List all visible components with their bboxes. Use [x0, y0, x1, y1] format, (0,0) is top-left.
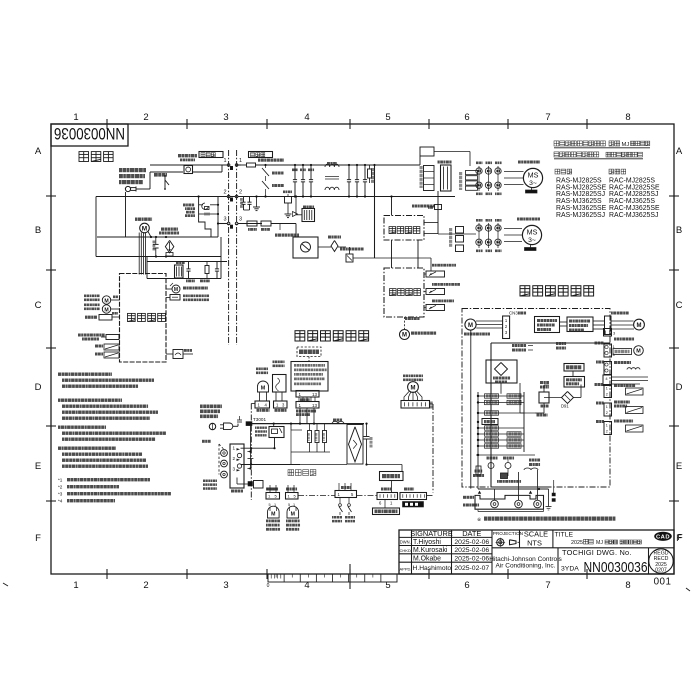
svg-text:3: 3 [233, 467, 236, 472]
rail3 series R004 C004 [247, 221, 257, 226]
right connector column CN15 [595, 342, 604, 345]
svg-text:D91: D91 [561, 404, 569, 409]
reactor L [438, 161, 452, 164]
fan motor lead wires [138, 233, 140, 275]
main bus indoor pcb [252, 423, 364, 425]
right connector CN8 OH thermistor [596, 420, 604, 423]
power module input stack [424, 166, 435, 191]
svg-text:2: 2 [143, 580, 148, 591]
humidity sensor label [273, 361, 285, 368]
indoor fan motor label wiring [403, 375, 423, 382]
row boundary ticks [46, 195, 56, 197]
svg-text:1: 1 [606, 387, 608, 391]
svg-text:SCALE: SCALE [524, 529, 548, 538]
outdoor fan motor wiring M [634, 319, 645, 330]
wire plug drop to loop [125, 192, 127, 237]
inductor LN01 [303, 206, 314, 209]
connector CN7 [381, 488, 391, 491]
varistor AV02 [272, 184, 284, 187]
ground 2 [287, 203, 289, 214]
svg-text:F: F [35, 533, 41, 544]
resistor R01 [369, 165, 371, 169]
wires CN15 to bus [299, 408, 301, 424]
svg-text:B: B [676, 225, 682, 236]
indoor wiring diagram heading [295, 331, 369, 341]
svg-text:5: 5 [269, 503, 271, 507]
relay RL12 [340, 248, 364, 251]
power block to fan inverter wires [424, 222, 438, 224]
svg-text:RAS-MJ3625SJ: RAS-MJ3625SJ [556, 212, 605, 219]
header line 1: Hitachi room air conditioner MJ series [554, 141, 605, 146]
notes bullet 3 H-LINK [58, 426, 106, 429]
control circuit block (kairo) [120, 274, 167, 363]
capacitor C003 indoor [366, 424, 368, 437]
compressor inverter IGBT column wires [478, 166, 480, 191]
svg-text:4: 4 [304, 112, 309, 123]
connector row chain link [298, 495, 335, 497]
power plug label 100V 50/60Hz [119, 168, 146, 172]
terminal block label [231, 490, 243, 493]
capacitor C61 [216, 262, 218, 269]
projection symbol [497, 539, 504, 546]
indoor fan motor M [140, 223, 150, 233]
svg-text:13: 13 [312, 392, 318, 397]
terminal junction 1 [227, 164, 230, 167]
connector CN10 [274, 401, 288, 408]
connector CN2 indoor [401, 401, 430, 409]
svg-text:1: 1 [73, 112, 78, 123]
wire rail 1 indoor [150, 164, 229, 166]
svg-text:MS: MS [527, 228, 538, 237]
wire plug to rails [136, 188, 150, 190]
wires above CN4 [338, 483, 340, 491]
svg-text:*2: *2 [58, 485, 63, 490]
model table heading outdoor [609, 169, 626, 174]
cable markers right [552, 493, 555, 496]
svg-text:2: 2 [233, 456, 236, 461]
surge unit labels R002 C007 [183, 204, 194, 207]
notes bullet 4 drain up kit [58, 447, 116, 450]
svg-text:6: 6 [464, 580, 469, 591]
OH thermostat row [432, 300, 454, 303]
svg-text:M: M [468, 323, 473, 329]
power plug label wiring [200, 405, 222, 409]
corner mark right [686, 588, 690, 591]
noise filter NF1 outdoor [482, 419, 498, 425]
cleaning unit motor row [166, 288, 172, 290]
outdoor pcb internal wires [500, 383, 502, 394]
resistor stack labels [309, 424, 311, 431]
CAD stamp [654, 532, 672, 541]
compressor motor terminal bar [531, 188, 533, 190]
model table heading indoor [555, 169, 572, 174]
thermal fuse label 132C [78, 334, 105, 337]
svg-text:1: 1 [606, 405, 608, 409]
svg-text:M: M [104, 298, 108, 304]
connector CN16 [296, 391, 319, 398]
compressor motor label [518, 161, 540, 164]
svg-text:2: 2 [606, 411, 608, 415]
thermistor row 1 [95, 345, 103, 348]
dashed route CN2 to CN6 [432, 404, 434, 493]
fan inverter pcb box [567, 317, 593, 332]
column boundary ticks [106, 119, 108, 129]
relay RL2 [539, 392, 549, 403]
overload relay row [432, 264, 456, 267]
fan inverter cap stack [456, 227, 464, 234]
defrost thermostat row [432, 283, 460, 286]
svg-text:2025-02-06: 2025-02-06 [454, 556, 489, 563]
svg-text:B: B [35, 225, 41, 236]
fuse AF1 [258, 159, 284, 162]
small box L002 [285, 197, 292, 204]
svg-text:M: M [402, 333, 407, 339]
terminal arrows [478, 491, 481, 494]
svg-text:D: D [35, 382, 42, 393]
vane motor 2 dome [287, 506, 299, 518]
svg-text:M: M [291, 512, 295, 518]
display pcb row [99, 315, 112, 321]
wire rail1 to inverter module [375, 164, 421, 166]
notes bullet 2 code key controller [58, 399, 122, 402]
expansion valve motor wire dashed [404, 317, 406, 329]
outdoor connection line label [203, 480, 217, 490]
svg-text:2025-02-06: 2025-02-06 [454, 539, 489, 546]
louver motor row 1 label [84, 295, 100, 302]
plug wire to bus [233, 425, 238, 427]
indoor fan motor label [135, 218, 152, 221]
main outdoor pcb outline [491, 343, 548, 487]
vane motor 1 dome [268, 506, 280, 518]
wires power pcb [391, 481, 393, 493]
header line 2: indoor/outdoor unit circuit+wiring diagram [554, 152, 599, 157]
svg-text:M: M [636, 349, 641, 355]
svg-text:M: M [142, 225, 147, 232]
louver motor row 2 symbol [102, 305, 110, 313]
svg-text:0207: 0207 [655, 568, 667, 574]
outdoor side label box [249, 152, 273, 158]
filter capacitors C1-C3 [294, 165, 296, 180]
svg-text:PROJECTION: PROJECTION [493, 531, 523, 536]
ground [256, 197, 258, 208]
indoor/outdoor boundary chain lines [228, 150, 230, 345]
sheet border frame [51, 124, 674, 574]
power plug symbol wiring [209, 423, 215, 429]
title block outline [399, 530, 674, 574]
svg-text:2: 2 [223, 190, 226, 196]
svg-text:2: 2 [239, 190, 242, 196]
connector CN8 indoor [255, 401, 270, 408]
svg-text:Air Conditioning, Inc.: Air Conditioning, Inc. [496, 563, 556, 570]
compressor leads [476, 320, 503, 322]
svg-text:3: 3 [223, 580, 228, 591]
connector CN15 [296, 402, 319, 409]
power circuit block label box [384, 216, 424, 241]
resistor R60 [206, 262, 208, 266]
connector CN4 [341, 486, 351, 489]
outdoor terminal strip 4pin [603, 375, 612, 386]
bridge diode D001 indoor [347, 425, 363, 465]
terminal wires to pcb [241, 447, 275, 449]
varistor resistor column 1 [290, 424, 292, 430]
control circuit block label box outdoor [384, 268, 424, 317]
svg-text:M: M [637, 323, 642, 329]
svg-text:2025: 2025 [571, 540, 583, 546]
wire quick charge to relay connector [375, 257, 432, 259]
inverter dc link box [420, 147, 434, 156]
compressor motor wiring label [464, 333, 490, 336]
indoor side label box [199, 152, 223, 158]
bus jumper cap [237, 419, 242, 421]
svg-text:M: M [174, 287, 178, 293]
terminal junction 3 [227, 222, 230, 225]
fuse AF4 label [412, 205, 435, 208]
capacitor C60 [188, 262, 190, 269]
left rail junction dots [477, 395, 479, 397]
outdoor terminal board [475, 495, 544, 509]
svg-text:2025-02-06: 2025-02-06 [454, 547, 489, 554]
svg-text:3: 3 [239, 217, 242, 223]
svg-text:2: 2 [606, 430, 608, 434]
connector CN9 [286, 488, 297, 491]
svg-text:2: 2 [143, 112, 148, 123]
power pcb box indoor [380, 472, 404, 481]
wireless remote dashed box [297, 347, 321, 357]
svg-text:DATE: DATE [462, 529, 481, 538]
terminal block TB [230, 444, 244, 488]
svg-text:A: A [676, 146, 683, 157]
svg-text:NN0030036: NN0030036 [584, 560, 648, 576]
expansion valve motor M [400, 330, 410, 340]
svg-text:8: 8 [625, 112, 630, 123]
left feed lines outdoor diagram [470, 330, 472, 489]
outdoor fan motor wiring label [611, 312, 629, 315]
svg-text:T.Hiyoshi: T.Hiyoshi [413, 539, 441, 546]
outdoor top connector [604, 329, 612, 337]
connector CN6 [404, 488, 414, 491]
svg-text:SIGNATURE: SIGNATURE [410, 529, 453, 538]
terminal junction 2 [227, 195, 230, 198]
svg-text:TITLE: TITLE [555, 531, 574, 538]
power relay RL001 [255, 427, 267, 437]
svg-text:C: C [35, 300, 42, 311]
svg-text:MJ: MJ [622, 142, 630, 148]
filter capacitors C4-C5 [348, 165, 350, 180]
capacitor C01 label [161, 228, 178, 231]
capacitors C021 C022 [512, 344, 526, 347]
fan inverter IGBTs [476, 225, 482, 231]
svg-text:5: 5 [288, 503, 290, 507]
wire rail2 into power block [391, 197, 393, 216]
svg-text:0: 0 [267, 583, 270, 589]
control pcb label [288, 470, 316, 476]
svg-text:*1: *1 [58, 478, 63, 483]
sheet title kanji: circuit diagram [79, 152, 113, 162]
svg-text:1: 1 [606, 424, 608, 428]
wire rail1 drop to power board [374, 165, 376, 258]
noise filter NF1 [333, 419, 342, 422]
varistors VS1 VS2 [487, 457, 498, 460]
received stamp [649, 549, 673, 573]
pcb boundary chain line indoor [250, 404, 252, 501]
svg-text:MS: MS [528, 171, 539, 180]
svg-text:D: D [676, 382, 683, 393]
current sense stack [466, 171, 478, 175]
svg-text:M: M [271, 512, 275, 518]
outdoor fan motor MS [522, 225, 541, 244]
svg-text:*4: *4 [58, 499, 63, 504]
indoor fan motor M wiring [408, 382, 419, 393]
compressor motor wiring M [465, 319, 476, 330]
svg-text:M: M [261, 386, 266, 392]
svg-text:1: 1 [223, 158, 226, 164]
cleaning unit switch row [166, 297, 170, 299]
T3001 junction [246, 422, 252, 426]
wiring module box [373, 508, 400, 515]
svg-text:F: F [678, 532, 683, 542]
right connector CN? defrost thermistor [596, 402, 604, 405]
svg-text:MJ: MJ [596, 540, 603, 546]
svg-text:TOCHIGI DWG. No.: TOCHIGI DWG. No. [562, 548, 632, 557]
svg-text:7: 7 [545, 112, 550, 123]
svg-text:CHKD.: CHKD. [400, 548, 412, 553]
svg-text:6: 6 [464, 112, 469, 123]
svg-text:2025-02-07: 2025-02-07 [454, 565, 489, 572]
control block bottom-right lamp [166, 353, 173, 355]
earth wire dashed [218, 444, 220, 475]
svg-text:1: 1 [233, 446, 236, 451]
humidity sensor box [273, 375, 287, 393]
transformer rail bottom [147, 278, 221, 280]
wire rail 1 outdoor [237, 164, 241, 166]
cleaning motor dome [258, 381, 269, 392]
power plug symbol [125, 186, 130, 191]
notes bullet 1 home automation [58, 373, 112, 376]
caps at rail2 left [243, 197, 245, 203]
wires above CN9 [269, 485, 271, 493]
svg-text:3YDA: 3YDA [561, 566, 579, 573]
quick charge circuit label [275, 234, 299, 237]
compressor inverter IGBTs [476, 168, 482, 174]
component labels under transformer [186, 280, 195, 283]
relay AUX1 [178, 154, 197, 157]
svg-text:M: M [104, 307, 108, 313]
fuse F3 1A [540, 381, 549, 384]
bottom scale ruler [268, 574, 397, 582]
compressor inverter pcb box [535, 317, 560, 333]
varistor AV12 [328, 236, 341, 239]
svg-text:M.Okabe: M.Okabe [413, 556, 441, 563]
wire rail 3 [218, 223, 229, 225]
fan motor terminal bar [530, 245, 532, 248]
surge absorber SA [497, 480, 521, 483]
fan inverter feed wire [437, 191, 439, 234]
fan motor harness [404, 392, 409, 401]
diode D91 [562, 392, 574, 404]
varistor AV01 [272, 172, 284, 175]
right connector CN12 thermistor [595, 383, 604, 386]
outdoor pcb chain boundary [462, 309, 610, 488]
links between power and control blocks [391, 240, 393, 268]
switch S01 [154, 173, 167, 177]
corner mark left [3, 583, 8, 586]
compressor motor MS [523, 168, 542, 187]
surge arrester symbol [202, 203, 208, 209]
display pcb box [291, 362, 328, 392]
varistor diamond C01 [165, 240, 174, 253]
svg-text:NTS: NTS [527, 539, 542, 548]
transformer rail top [147, 261, 227, 263]
fuse F1 25A [475, 470, 483, 473]
enlarged view black label [403, 502, 424, 508]
svg-text:*3: *3 [58, 492, 63, 497]
wire rail 2 [96, 196, 229, 198]
svg-text:1: 1 [239, 158, 242, 164]
expansion valve motor label SA [405, 317, 420, 320]
outdoor wiring diagram heading [520, 286, 594, 296]
svg-text:H.Hashimoto: H.Hashimoto [413, 565, 452, 572]
capacitor C003 fan run [155, 237, 157, 244]
power pcb box outdoor [564, 364, 584, 372]
CT1 L001 labels [529, 459, 540, 462]
svg-text:CAD: CAD [656, 535, 670, 541]
connector CN13 [266, 488, 277, 491]
svg-text:3: 3 [223, 112, 228, 123]
svg-text:M.Kurosaki: M.Kurosaki [413, 547, 448, 554]
quick charge circuit box Q12 [293, 237, 318, 258]
svg-text:E: E [676, 461, 682, 472]
drawing number box (rotated) NN0030036 [51, 124, 128, 146]
svg-text:7: 7 [545, 580, 550, 591]
terminal block outgoing wires [248, 451, 251, 453]
terminal cable bracket [478, 511, 544, 513]
svg-text:1: 1 [73, 580, 78, 591]
compressor inverter to fan inverter wire [560, 321, 567, 323]
converter pcb box [486, 360, 517, 383]
svg-text:※: ※ [477, 517, 481, 523]
transformer T001 [176, 261, 185, 264]
svg-text:C: C [676, 300, 683, 311]
earth terminal [236, 478, 238, 485]
louver motor row 1 symbol [102, 296, 110, 304]
wires surge cluster [198, 197, 200, 217]
fan inverter IGBT column wires [478, 223, 480, 248]
title block grid [399, 536, 492, 538]
svg-text:5: 5 [385, 112, 390, 123]
svg-text:NN0030036: NN0030036 [54, 124, 125, 143]
earth drop right [548, 489, 550, 507]
svg-text:A: A [35, 146, 42, 157]
inductor L002 outdoor [537, 414, 548, 417]
svg-text:DWN.: DWN. [400, 539, 411, 544]
capacitor rows outdoor pcb [477, 392, 479, 470]
svg-text:3~: 3~ [529, 180, 537, 187]
wires to fan motor [504, 228, 522, 230]
outdoor fan motor label [517, 218, 540, 221]
common mode choke L01 [325, 164, 339, 167]
service switches under CN4 [339, 498, 341, 504]
svg-text:001: 001 [654, 577, 672, 588]
terminal board labels [463, 496, 474, 499]
thermistor row 2 [95, 353, 103, 356]
svg-text:3~: 3~ [528, 237, 536, 244]
svg-text:M: M [411, 385, 416, 391]
louver motor row 2 label [84, 304, 100, 311]
wire loop lower [96, 256, 221, 258]
svg-text:8: 8 [625, 580, 630, 591]
wire loop upper [97, 236, 218, 238]
thermal fuse [106, 335, 119, 340]
